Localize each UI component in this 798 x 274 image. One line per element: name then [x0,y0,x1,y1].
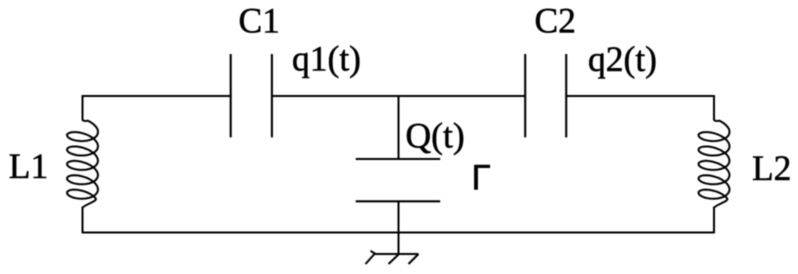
wire top-right [566,95,714,97]
ground slash left [366,255,375,265]
wire left vertical top [82,95,84,120]
svg-text:q1(t): q1(t) [292,39,361,79]
wire middle vertical upper [398,96,400,160]
svg-text:Q(t): Q(t) [406,116,465,156]
wire top-middle [272,95,525,97]
wire right vertical top [713,95,715,120]
capacitor C1 right plate [271,54,273,137]
ground bar [371,251,419,254]
wire right vertical bottom [713,207,715,234]
wire middle vertical lower [398,201,400,254]
capacitor Q bottom plate [356,200,441,202]
inductor L2 coil [699,119,730,207]
ground slash right [409,254,419,264]
svg-text:q2(t): q2(t) [588,39,657,79]
inductor L1 coil [67,119,98,207]
capacitor C1 left plate [230,54,232,137]
svg-text:Γ: Γ [472,159,491,198]
capacitor Q top plate [356,158,441,160]
svg-text:L1: L1 [9,146,48,186]
svg-text:L2: L2 [752,148,791,188]
wire left vertical bottom [82,207,84,234]
wire bottom [83,232,715,234]
ground slash middle [389,255,399,265]
capacitor C2 right plate [565,54,567,137]
wire top-left [83,95,231,97]
capacitor C2 left plate [524,54,526,137]
svg-text:C1: C1 [239,1,280,41]
svg-text:C2: C2 [535,1,576,41]
